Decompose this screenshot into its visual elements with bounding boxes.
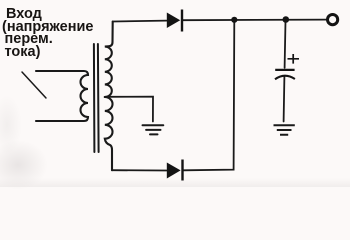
transformer T1 secondary winding lower half <box>105 97 113 170</box>
ground (center tap) <box>143 125 164 134</box>
transformer T1 core <box>94 44 99 152</box>
capacitor C1 top plate <box>275 69 294 71</box>
junction node A (diode join) <box>231 17 237 23</box>
transformer T1 primary winding <box>36 71 88 121</box>
wire: output node down to capacitor <box>284 21 287 68</box>
diode D1 <box>167 10 183 32</box>
wire: capacitor to ground <box>283 77 286 122</box>
diode D2 <box>167 160 184 181</box>
ground (capacitor) <box>274 125 295 135</box>
transformer T1 secondary winding upper half <box>105 22 113 98</box>
wire: bottom rail from D2 up to top rail <box>184 21 235 170</box>
output terminal circle <box>328 15 338 25</box>
wire: center tap to ground <box>105 97 153 122</box>
label: input text <box>2 8 93 58</box>
pointer line from label <box>22 72 46 98</box>
capacitor C1 curved plate <box>275 76 295 80</box>
capacitor C1 plus sign <box>288 54 300 64</box>
junction node B (capacitor tap) <box>283 16 290 23</box>
wire: bottom rail from secondary to diode D2 <box>112 169 167 171</box>
wire: top rail from D1 to output terminal <box>183 19 326 22</box>
wire: top rail from secondary to diode D1 <box>113 20 167 23</box>
